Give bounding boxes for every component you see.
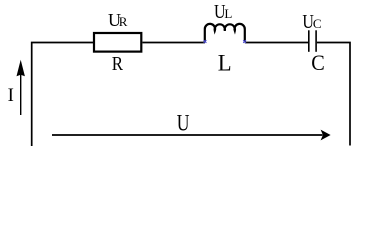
svg-text:L: L xyxy=(224,6,232,21)
svg-text:C: C xyxy=(311,50,325,75)
svg-text:L: L xyxy=(218,51,232,76)
svg-text:U: U xyxy=(177,110,190,136)
svg-text:R: R xyxy=(119,14,128,29)
svg-text:R: R xyxy=(112,53,124,75)
svg-text:I: I xyxy=(8,85,14,106)
svg-text:C: C xyxy=(313,16,322,31)
